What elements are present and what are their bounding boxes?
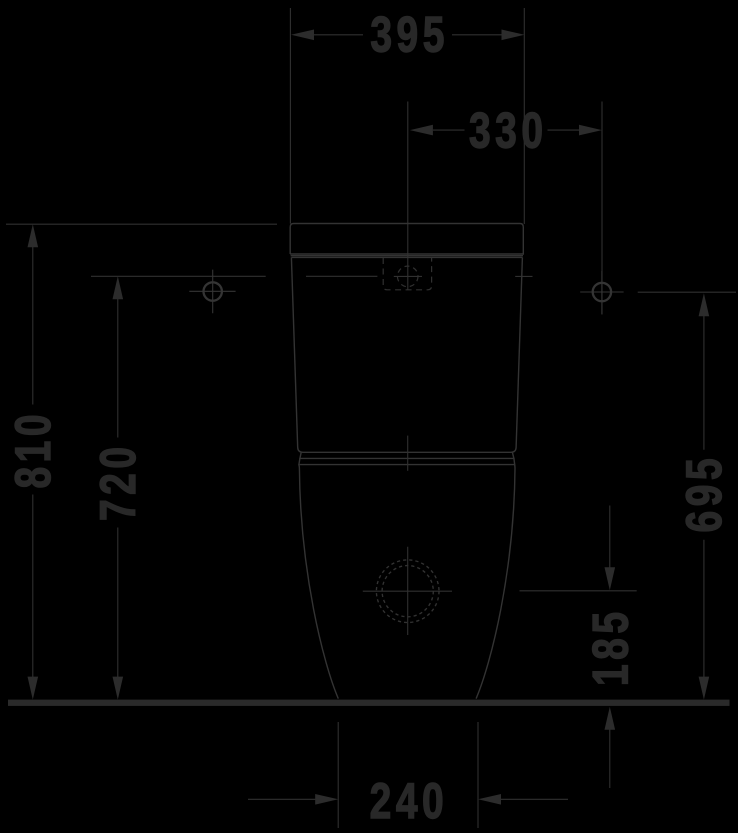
dim 720 line — [117, 299, 119, 677]
dim 185 line upper — [609, 506, 611, 569]
label 695 — [675, 458, 732, 532]
svg-text:240: 240 — [370, 772, 444, 829]
flush button dashed outline — [383, 258, 431, 290]
dim 185 line lower — [609, 729, 611, 788]
svg-text:330: 330 — [469, 102, 543, 159]
label 330 — [469, 102, 543, 159]
dim 395 line — [314, 34, 502, 36]
svg-text:810: 810 — [4, 414, 61, 488]
arrowhead 695 up — [699, 293, 710, 316]
label 185 — [582, 612, 639, 686]
svg-text:395: 395 — [370, 6, 444, 63]
arrowhead 185 down — [605, 567, 616, 590]
label 395 — [370, 6, 444, 63]
arrowhead 810 down — [28, 677, 39, 700]
label 720 — [89, 447, 146, 521]
centerline at tank-bowl junction — [407, 436, 409, 471]
tank body — [291, 257, 522, 452]
dim 330 extension / centerline — [407, 102, 409, 290]
dim 330 line — [433, 129, 579, 131]
arrowhead 810 up — [28, 224, 39, 247]
arrowhead 720 down — [113, 677, 124, 700]
label 240 — [370, 772, 444, 829]
drain outlet dashed circles — [376, 560, 439, 623]
dim 395 extension line left — [289, 8, 291, 224]
arrowhead 720 up — [113, 276, 124, 299]
arrowhead 240 right — [478, 794, 501, 805]
hinge hole left — [189, 270, 235, 314]
lid underside line — [291, 255, 523, 257]
tick right at flush height — [515, 275, 532, 277]
dim 330 extension right — [601, 102, 603, 315]
svg-text:695: 695 — [675, 458, 732, 532]
dim 240 extension left — [337, 722, 339, 828]
arrowhead 240 left — [315, 794, 338, 805]
dim 240 extension right — [477, 722, 479, 828]
dim 720 extension top — [91, 275, 377, 277]
floor line — [8, 700, 730, 706]
bowl pedestal left side — [299, 465, 338, 699]
flush button dashed circle — [397, 266, 418, 287]
junction band lower / bowl rim — [299, 458, 515, 464]
dim 695 extension top — [638, 291, 736, 293]
arrowhead 395 left — [291, 30, 314, 41]
dim 810 line — [32, 247, 34, 677]
svg-text:720: 720 — [89, 447, 146, 521]
label 810 — [4, 414, 61, 488]
flush button crosshair — [394, 275, 422, 277]
dim 395 extension line right — [523, 8, 525, 224]
arrowhead 695 down — [699, 677, 710, 700]
dim 695 line — [703, 316, 705, 677]
arrowhead 330 right — [579, 125, 602, 136]
hinge hole right — [580, 271, 623, 314]
bowl pedestal right side — [476, 465, 515, 699]
dim 185 extension at drain height — [520, 590, 637, 592]
arrowhead 185 up — [605, 707, 616, 730]
arrowhead 395 right — [502, 30, 525, 41]
dim 240 line — [248, 798, 568, 800]
dim 810 extension top — [6, 223, 277, 225]
drain crosshair — [363, 547, 452, 635]
junction band upper — [300, 452, 514, 458]
tank lid outline — [290, 224, 523, 255]
svg-text:185: 185 — [582, 612, 639, 686]
arrowhead 330 left — [410, 125, 433, 136]
